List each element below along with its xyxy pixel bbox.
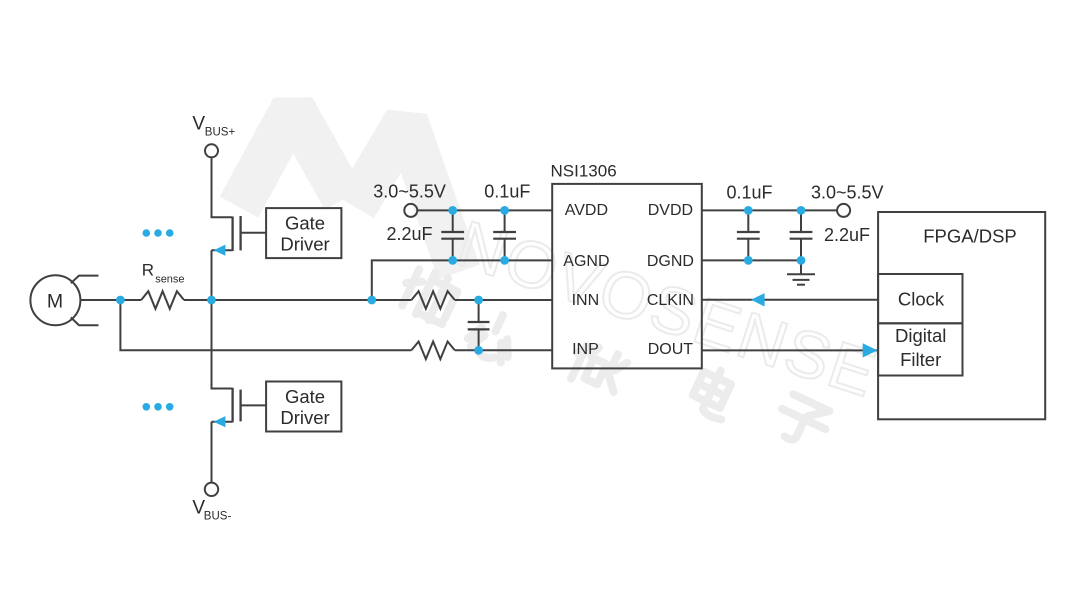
wire AGND run — [372, 260, 552, 300]
node B junction (main/Q trunk) — [207, 296, 216, 305]
svg-text:DOUT: DOUT — [648, 341, 694, 358]
arrow CLKIN (points left) — [751, 293, 765, 306]
svg-text:R: R — [142, 261, 154, 280]
wire VBUS+ to Q1 drain — [212, 157, 233, 217]
junction C2 bottom — [500, 256, 509, 265]
transistor Q1 — [212, 216, 241, 256]
motor phase stub bottom — [71, 317, 99, 325]
wire DOUT run — [702, 349, 877, 351]
svg-text:FPGA/DSP: FPGA/DSP — [923, 226, 1017, 247]
node E junction (INP/C3) — [474, 346, 483, 355]
svg-text:DVDD: DVDD — [648, 202, 693, 219]
wire Q1 source to main node — [211, 250, 213, 300]
svg-text:Digital: Digital — [895, 325, 946, 346]
svg-text:3.0~5.5V: 3.0~5.5V — [811, 182, 884, 202]
junction C4 bottom — [744, 256, 753, 265]
capacitor C3 differential — [468, 300, 490, 350]
FPGA/DSP box — [878, 212, 1045, 419]
Clock box — [878, 274, 962, 323]
svg-text:DGND: DGND — [647, 253, 694, 270]
wire R2 to INP pin — [455, 349, 552, 351]
gate driver U2 box — [266, 208, 341, 258]
capacitor C4 0.1uF — [737, 210, 760, 260]
wire DVDD run — [702, 209, 837, 211]
resistor R_sense — [141, 291, 184, 309]
svg-text:V: V — [192, 113, 205, 134]
svg-text:INP: INP — [572, 341, 599, 358]
junction C2 top — [500, 206, 509, 215]
wire motor to node A — [80, 299, 141, 301]
terminal 3.0~5.5V right — [811, 182, 884, 217]
svg-text:BUS+: BUS+ — [205, 127, 236, 139]
node D junction (INN/C3) — [474, 296, 483, 305]
wire Q2 gate to gate driver — [241, 404, 267, 406]
motor M1 — [30, 275, 80, 325]
svg-text:3.0~5.5V: 3.0~5.5V — [373, 182, 446, 202]
node C junction (AGND tap) — [367, 296, 376, 305]
label R_sense — [142, 261, 185, 286]
svg-text:Filter: Filter — [900, 349, 941, 370]
capacitor C2 0.1uF — [493, 210, 516, 260]
svg-text:0.1uF: 0.1uF — [727, 182, 773, 202]
svg-text:M: M — [47, 291, 63, 313]
wire R_sense to INN resistor (main node) — [184, 299, 411, 301]
junction C1 top — [448, 206, 457, 215]
junction C1 bottom — [448, 256, 457, 265]
svg-text:NSI1306: NSI1306 — [551, 161, 617, 180]
svg-text:AVDD: AVDD — [565, 202, 608, 219]
motor phase stub top — [71, 276, 99, 284]
svg-text:Clock: Clock — [898, 288, 945, 309]
svg-text:Driver: Driver — [280, 233, 329, 254]
wire node A to INP branch — [120, 300, 411, 350]
terminal V_BUS- — [192, 483, 231, 523]
node A junction — [116, 296, 125, 305]
wire R1 to INN pin — [455, 299, 552, 301]
junction C5 top — [797, 206, 806, 215]
junction C4 top — [744, 206, 753, 215]
wire CLKIN run — [702, 299, 878, 301]
terminal V_BUS+ — [192, 113, 235, 157]
svg-text:2.2uF: 2.2uF — [824, 225, 870, 245]
svg-text:AGND: AGND — [563, 253, 609, 270]
resistor R2 (INP) — [411, 342, 454, 360]
wire Q1 gate to gate driver — [241, 232, 267, 234]
svg-text:Gate: Gate — [285, 386, 325, 407]
wire AVDD run — [417, 209, 552, 211]
svg-text:INN: INN — [572, 292, 600, 309]
svg-text:CLKIN: CLKIN — [647, 292, 694, 309]
IC U1 NSI1306 isolated modulator — [551, 161, 702, 368]
wire DGND run — [702, 259, 801, 261]
phase ellipsis top — [143, 229, 174, 237]
terminal 3.0~5.5V left — [373, 182, 446, 217]
svg-text:Gate: Gate — [285, 213, 325, 234]
transistor Q2 — [212, 388, 241, 428]
svg-text:Driver: Driver — [280, 407, 329, 428]
svg-text:sense: sense — [155, 273, 184, 285]
capacitor C1 2.2uF — [441, 210, 464, 260]
wire Q2 source to VBUS- — [211, 422, 213, 483]
resistor R1 (INN) — [411, 291, 454, 309]
WATERMARK — [239, 108, 886, 451]
svg-text:0.1uF: 0.1uF — [484, 182, 530, 202]
svg-text:BUS-: BUS- — [204, 511, 232, 523]
Digital Filter box — [878, 323, 962, 375]
gate driver U3 box — [266, 382, 341, 432]
phase ellipsis bottom — [143, 403, 174, 411]
capacitor C5 2.2uF — [790, 210, 813, 260]
junction C5 bottom — [797, 256, 806, 265]
svg-text:2.2uF: 2.2uF — [387, 224, 433, 244]
wire main node to Q2 drain — [212, 300, 233, 389]
ground — [787, 260, 815, 284]
arrow DOUT (points right) — [863, 343, 878, 357]
